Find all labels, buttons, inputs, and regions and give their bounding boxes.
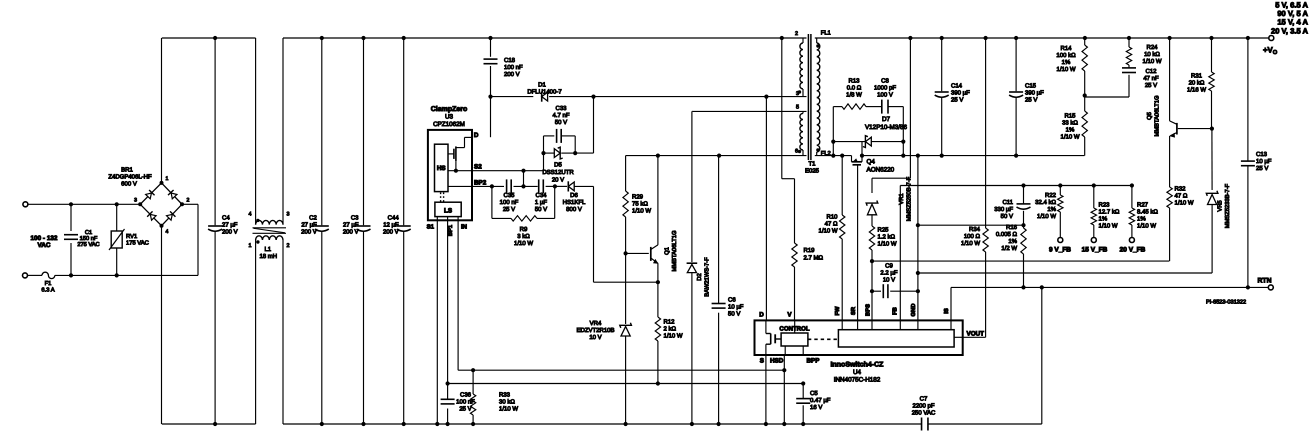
svg-text:1/10 W: 1/10 W <box>499 405 518 412</box>
svg-text:10 µF: 10 µF <box>1256 158 1272 165</box>
svg-text:30 kΩ: 30 kΩ <box>499 398 515 405</box>
svg-text:FW: FW <box>835 306 841 316</box>
svg-text:InnoSwitch4-CZ: InnoSwitch4-CZ <box>831 361 885 369</box>
svg-text:15 V_FB: 15 V_FB <box>1082 247 1108 254</box>
svg-text:1/16 W: 1/16 W <box>1187 86 1206 93</box>
svg-text:100 nF: 100 nF <box>456 398 475 405</box>
svg-text:2.7 MΩ: 2.7 MΩ <box>804 255 824 262</box>
svg-text:1/10 W: 1/10 W <box>1099 222 1118 229</box>
svg-text:FB: FB <box>893 307 899 315</box>
svg-text:BP1: BP1 <box>448 224 454 236</box>
svg-text:25 V: 25 V <box>1145 82 1157 89</box>
svg-text:EDZVT2R10B: EDZVT2R10B <box>576 327 614 334</box>
svg-text:12 µF: 12 µF <box>383 222 399 229</box>
svg-text:1%: 1% <box>1099 215 1108 222</box>
svg-text:MMBTA06LT1G: MMBTA06LT1G <box>671 230 678 272</box>
svg-text:25 V: 25 V <box>1256 165 1268 172</box>
svg-text:1%: 1% <box>1066 126 1075 133</box>
svg-text:50 V: 50 V <box>728 311 740 318</box>
svg-text:R27: R27 <box>1137 201 1149 208</box>
svg-text:VOUT: VOUT <box>967 331 985 338</box>
svg-text:R10: R10 <box>826 213 838 220</box>
svg-text:D2: D2 <box>696 273 703 280</box>
svg-text:1/10 W: 1/10 W <box>632 208 651 215</box>
svg-text:C35: C35 <box>503 192 515 199</box>
svg-text:10 V: 10 V <box>883 277 895 284</box>
svg-text:V: V <box>787 312 792 319</box>
svg-text:HS: HS <box>437 165 446 172</box>
svg-text:12.7 kΩ: 12.7 kΩ <box>1099 208 1120 215</box>
svg-text:C44: C44 <box>388 215 400 222</box>
svg-text:47 nF: 47 nF <box>1143 75 1159 82</box>
svg-text:C11: C11 <box>1002 199 1013 206</box>
svg-text:C12: C12 <box>1145 68 1157 75</box>
svg-text:20 kΩ: 20 kΩ <box>1189 79 1205 86</box>
svg-text:F1: F1 <box>45 281 52 287</box>
svg-text:DFLU1400-7: DFLU1400-7 <box>527 88 562 95</box>
svg-text:1%: 1% <box>1137 215 1146 222</box>
svg-text:600 V: 600 V <box>121 181 137 188</box>
svg-text:5: 5 <box>796 105 799 111</box>
svg-text:2: 2 <box>187 198 190 204</box>
svg-text:R19: R19 <box>804 247 816 254</box>
svg-text:RTN: RTN <box>1258 277 1272 284</box>
svg-text:R22: R22 <box>1045 192 1057 199</box>
svg-text:L1: L1 <box>264 246 271 253</box>
svg-text:1/8 W: 1/8 W <box>846 91 862 98</box>
svg-text:C36: C36 <box>460 391 472 398</box>
svg-text:MMSZ5250B-7-F: MMSZ5250B-7-F <box>906 176 913 221</box>
svg-text:C8: C8 <box>881 77 889 84</box>
svg-text:200 V: 200 V <box>343 229 359 236</box>
svg-text:1%: 1% <box>1047 206 1056 213</box>
svg-text:IN: IN <box>461 224 467 231</box>
svg-text:R14: R14 <box>1060 45 1072 52</box>
svg-text:C6: C6 <box>728 297 736 304</box>
svg-text:D6: D6 <box>570 192 578 199</box>
svg-text:1/10 W: 1/10 W <box>878 241 897 248</box>
svg-text:INN4075C-H182: INN4075C-H182 <box>834 377 881 384</box>
svg-text:C14: C14 <box>951 83 963 90</box>
svg-text:ClampZero: ClampZero <box>431 105 468 113</box>
svg-text:BPS: BPS <box>864 304 871 316</box>
svg-text:R9: R9 <box>520 226 528 233</box>
svg-text:4: 4 <box>166 229 169 235</box>
svg-text:100 Ω: 100 Ω <box>964 233 981 240</box>
svg-text:1/10 W: 1/10 W <box>818 227 837 234</box>
svg-text:50 V: 50 V <box>1001 213 1013 220</box>
svg-text:U4: U4 <box>853 369 862 376</box>
svg-text:6: 6 <box>795 149 798 155</box>
svg-text:BPP: BPP <box>807 358 820 365</box>
svg-text:R31: R31 <box>1191 72 1203 79</box>
svg-text:C15: C15 <box>1025 83 1037 90</box>
svg-text:HSD: HSD <box>770 358 784 365</box>
svg-text:D: D <box>474 132 479 139</box>
svg-text:390 µF: 390 µF <box>1025 90 1044 97</box>
svg-text:100 V: 100 V <box>877 91 893 98</box>
svg-text:47 Ω: 47 Ω <box>825 220 838 227</box>
svg-text:T1: T1 <box>808 161 816 168</box>
svg-text:1 µF: 1 µF <box>535 199 547 206</box>
svg-text:0.0 Ω: 0.0 Ω <box>847 84 862 91</box>
svg-text:GND: GND <box>910 304 917 317</box>
svg-text:250 VAC: 250 VAC <box>912 410 936 417</box>
svg-text:V12P10-M3/86: V12P10-M3/86 <box>865 124 908 131</box>
svg-text:2: 2 <box>795 31 798 37</box>
svg-text:R24: R24 <box>1146 44 1158 51</box>
svg-text:IS: IS <box>943 308 950 314</box>
svg-text:1/10 W: 1/10 W <box>664 333 683 340</box>
svg-text:1/10 W: 1/10 W <box>1037 213 1056 220</box>
svg-text:330 µF: 330 µF <box>994 206 1013 213</box>
svg-text:1.2 kΩ: 1.2 kΩ <box>878 234 896 241</box>
svg-text:25 V: 25 V <box>503 206 515 213</box>
svg-text:50 V: 50 V <box>535 206 547 213</box>
svg-text:175 VAC: 175 VAC <box>126 239 149 246</box>
svg-text:R16: R16 <box>1006 224 1018 231</box>
svg-text:R32: R32 <box>1175 186 1187 193</box>
svg-text:200 V: 200 V <box>504 71 520 78</box>
svg-text:+VO: +VO <box>1263 46 1278 57</box>
svg-text:200 V: 200 V <box>222 229 238 236</box>
svg-text:C2: C2 <box>309 215 317 222</box>
svg-text:1/10 W: 1/10 W <box>961 240 980 247</box>
svg-text:10 kΩ: 10 kΩ <box>1144 51 1160 58</box>
svg-text:390 µF: 390 µF <box>951 90 970 97</box>
svg-text:18 mH: 18 mH <box>259 253 277 260</box>
svg-text:3 kΩ: 3 kΩ <box>517 233 530 240</box>
svg-text:D7: D7 <box>882 116 891 123</box>
svg-text:C33: C33 <box>555 105 567 112</box>
svg-text:32.4 kΩ: 32.4 kΩ <box>1035 199 1056 206</box>
svg-text:75 kΩ: 75 kΩ <box>632 201 648 208</box>
svg-text:U3: U3 <box>445 114 454 121</box>
svg-text:FL1: FL1 <box>821 31 831 37</box>
svg-text:SR: SR <box>850 306 857 315</box>
svg-text:8.45 kΩ: 8.45 kΩ <box>1137 208 1158 215</box>
svg-text:1/10 W: 1/10 W <box>1142 58 1161 65</box>
svg-text:3: 3 <box>287 211 290 217</box>
svg-text:1: 1 <box>249 243 252 249</box>
svg-text:6.3 A: 6.3 A <box>41 287 54 294</box>
svg-text:1: 1 <box>166 176 169 182</box>
svg-text:R12: R12 <box>664 319 676 326</box>
svg-text:1/10 W: 1/10 W <box>1060 133 1079 140</box>
svg-text:33 kΩ: 33 kΩ <box>1062 119 1078 126</box>
svg-text:16 V: 16 V <box>810 404 822 411</box>
svg-text:BP2: BP2 <box>474 179 487 186</box>
svg-text:1%: 1% <box>1062 59 1071 66</box>
svg-text:20 V: 20 V <box>552 177 564 184</box>
svg-text:HS1KFL: HS1KFL <box>563 199 586 206</box>
svg-text:4.7 nF: 4.7 nF <box>552 112 569 119</box>
svg-text:0.005 Ω: 0.005 Ω <box>996 231 1018 238</box>
svg-text:C1: C1 <box>85 230 92 236</box>
svg-text:2 kΩ: 2 kΩ <box>664 326 677 333</box>
svg-text:1/2 W: 1/2 W <box>1001 245 1017 252</box>
svg-text:3: 3 <box>134 198 137 204</box>
svg-text:C9: C9 <box>885 263 893 270</box>
svg-text:200 V: 200 V <box>301 229 317 236</box>
svg-text:1/10 W: 1/10 W <box>514 240 533 247</box>
svg-text:4: 4 <box>249 211 252 217</box>
svg-text:27 µF: 27 µF <box>222 222 238 229</box>
svg-text:LS: LS <box>444 208 452 215</box>
svg-text:C3: C3 <box>351 215 359 222</box>
svg-text:RV1: RV1 <box>126 234 137 240</box>
svg-text:50 V: 50 V <box>555 119 567 126</box>
svg-text:VR4: VR4 <box>590 320 602 327</box>
svg-text:S2: S2 <box>474 164 482 171</box>
svg-text:C34: C34 <box>535 192 547 199</box>
svg-text:R29: R29 <box>632 194 644 201</box>
svg-text:150 nF: 150 nF <box>80 236 98 242</box>
svg-text:47 Ω: 47 Ω <box>1175 193 1188 200</box>
svg-text:100 nF: 100 nF <box>504 64 523 71</box>
svg-text:20 V, 3.5 A: 20 V, 3.5 A <box>1271 26 1309 35</box>
svg-text:Q1: Q1 <box>664 247 671 255</box>
svg-text:1%: 1% <box>1008 238 1017 245</box>
svg-text:10 V: 10 V <box>589 334 601 341</box>
svg-text:R33: R33 <box>499 391 511 398</box>
svg-text:2200 pF: 2200 pF <box>912 403 934 410</box>
svg-text:2.2 µF: 2.2 µF <box>880 270 897 277</box>
svg-text:C7: C7 <box>920 396 928 403</box>
svg-text:27 µF: 27 µF <box>343 222 359 229</box>
svg-text:S1: S1 <box>427 224 435 231</box>
svg-text:25 V: 25 V <box>1025 97 1037 104</box>
svg-text:0.47 µF: 0.47 µF <box>810 397 831 404</box>
svg-text:3: 3 <box>796 91 799 97</box>
svg-text:R25: R25 <box>878 227 890 234</box>
svg-text:2: 2 <box>287 243 290 249</box>
svg-text:R15: R15 <box>1064 112 1076 119</box>
svg-text:27 µF: 27 µF <box>301 222 317 229</box>
svg-text:275 VAC: 275 VAC <box>77 242 99 248</box>
svg-text:1000 pF: 1000 pF <box>874 84 896 91</box>
svg-text:1/10 W: 1/10 W <box>1056 66 1075 73</box>
svg-text:BAW21WS-7-F: BAW21WS-7-F <box>704 257 711 297</box>
svg-text:C13: C13 <box>1256 151 1268 158</box>
svg-text:D1: D1 <box>538 81 546 88</box>
svg-text:10 µF: 10 µF <box>728 304 744 311</box>
svg-text:Z4DGP406L-HF: Z4DGP406L-HF <box>108 174 152 181</box>
svg-text:25 V: 25 V <box>951 97 963 104</box>
svg-text:CPZ1062M: CPZ1062M <box>433 121 465 128</box>
svg-text:100 nF: 100 nF <box>500 199 519 206</box>
svg-text:D5: D5 <box>554 162 562 169</box>
svg-text:VAC: VAC <box>37 242 50 249</box>
svg-text:R23: R23 <box>1099 201 1111 208</box>
svg-text:BR1: BR1 <box>121 167 133 174</box>
svg-text:1/10 W: 1/10 W <box>1175 200 1194 207</box>
svg-text:25 V: 25 V <box>459 405 471 412</box>
svg-text:200 V: 200 V <box>383 229 399 236</box>
svg-text:20 V_FB: 20 V_FB <box>1120 247 1146 254</box>
svg-text:C4: C4 <box>222 215 230 222</box>
svg-text:800 V: 800 V <box>566 206 582 213</box>
svg-text:DSS12UTR: DSS12UTR <box>542 169 574 176</box>
svg-text:R13: R13 <box>848 77 860 84</box>
svg-text:C18: C18 <box>504 57 516 64</box>
svg-text:9 V_FB: 9 V_FB <box>1049 247 1071 254</box>
svg-text:MMSZ5233B-7-F: MMSZ5233B-7-F <box>1224 183 1231 228</box>
svg-text:R34: R34 <box>969 226 981 233</box>
svg-text:VR5: VR5 <box>1218 200 1224 211</box>
svg-text:PI-8523-031322: PI-8523-031322 <box>1206 300 1246 306</box>
svg-text:Q5: Q5 <box>1146 112 1153 120</box>
svg-text:100 kΩ: 100 kΩ <box>1056 52 1076 59</box>
svg-text:MMBTA06LT1G: MMBTA06LT1G <box>1154 95 1161 137</box>
svg-text:1/10 W: 1/10 W <box>1137 222 1156 229</box>
svg-text:D: D <box>759 312 764 319</box>
svg-text:C5: C5 <box>810 390 818 397</box>
svg-text:Q4: Q4 <box>867 159 876 166</box>
svg-text:E025: E025 <box>805 168 820 175</box>
svg-text:AON6220: AON6220 <box>867 166 895 173</box>
svg-text:S: S <box>760 358 764 365</box>
